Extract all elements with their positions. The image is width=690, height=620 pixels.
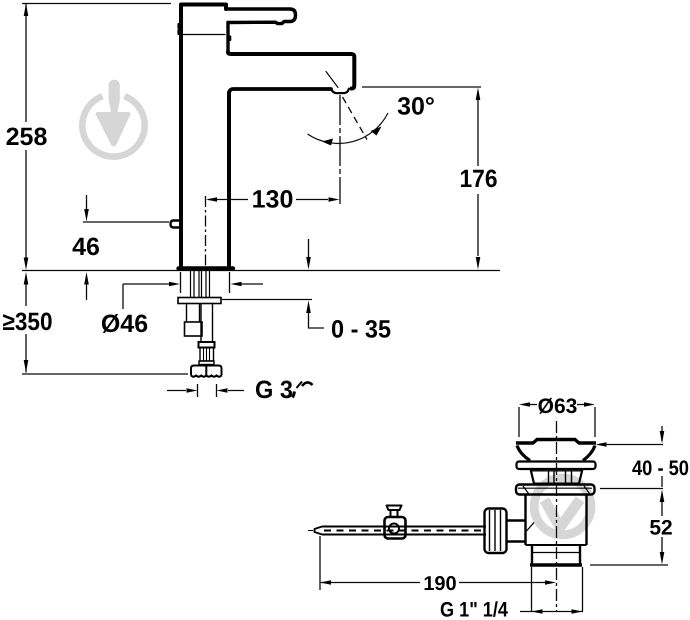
svg-text:40 - 50: 40 - 50 <box>632 457 689 480</box>
svg-text:30°: 30° <box>397 93 435 121</box>
svg-text:258: 258 <box>6 123 48 151</box>
svg-text:130: 130 <box>252 186 294 214</box>
svg-text:Ø63: Ø63 <box>538 395 578 418</box>
svg-text:176: 176 <box>460 165 498 193</box>
svg-text:Ø46: Ø46 <box>101 310 148 338</box>
svg-text:190: 190 <box>423 573 456 595</box>
svg-text:52: 52 <box>649 517 672 540</box>
svg-text:G 1" 1/4: G 1" 1/4 <box>440 599 508 620</box>
svg-text:46: 46 <box>72 233 100 261</box>
svg-text:≥350: ≥350 <box>3 308 53 336</box>
svg-text:0 - 35: 0 - 35 <box>331 316 391 344</box>
svg-text:G 3: G 3 <box>255 376 293 404</box>
